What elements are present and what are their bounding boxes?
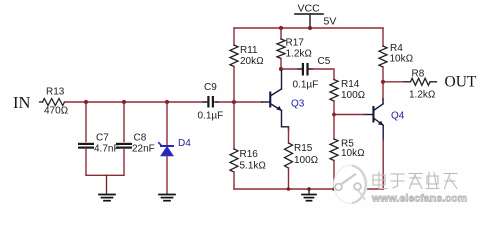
wire ground stub C7C8 xyxy=(106,175,108,194)
wire R4 to node xyxy=(382,67,384,100)
svg-text:D4: D4 xyxy=(178,138,191,149)
svg-text:R15: R15 xyxy=(294,143,313,154)
resistor R5 xyxy=(330,139,338,161)
node junction R17 top xyxy=(279,26,283,30)
svg-text:R16: R16 xyxy=(240,149,259,160)
capacitor C9 xyxy=(203,101,218,103)
wire C7 branch xyxy=(85,102,87,142)
resistor R16 xyxy=(230,149,238,172)
svg-text:10kΩ: 10kΩ xyxy=(341,148,365,159)
svg-text:C5: C5 xyxy=(318,56,331,67)
node junction R15 bottom xyxy=(287,187,291,191)
wire Q4 base from R14 rail xyxy=(334,114,365,116)
wire R5 rail bottom xyxy=(333,161,335,190)
diode D4 zener xyxy=(159,143,173,156)
wire emitter to R15 xyxy=(288,128,290,143)
svg-text:IN: IN xyxy=(13,93,30,112)
svg-text:22nF: 22nF xyxy=(132,144,155,155)
wire U-bottom C7-C8 xyxy=(86,174,124,176)
svg-text:R17: R17 xyxy=(286,37,305,48)
svg-text:C9: C9 xyxy=(204,82,217,93)
svg-text:4.7nF: 4.7nF xyxy=(94,144,120,155)
node junction R8/collector xyxy=(381,80,385,84)
resistor R15 xyxy=(285,143,293,168)
svg-text:C8: C8 xyxy=(134,133,147,144)
watermark logo ball xyxy=(334,165,367,203)
watermark chinese text 电子发烧友 xyxy=(373,172,457,189)
node junction C5/collector xyxy=(279,67,283,71)
svg-text:R8: R8 xyxy=(412,69,425,80)
node junction Q4 base xyxy=(332,113,336,117)
svg-text:5V: 5V xyxy=(324,16,337,28)
wire C5 to R14 rail xyxy=(312,69,334,80)
wire left rail x=234 top section xyxy=(233,28,235,45)
svg-text:Q4: Q4 xyxy=(391,111,405,122)
wire C8 branch xyxy=(123,102,125,142)
svg-text:R4: R4 xyxy=(390,43,403,54)
node junction R5 bottom xyxy=(332,187,336,191)
svg-text:0.1µF: 0.1µF xyxy=(293,80,319,91)
capacitor C8 xyxy=(116,143,132,145)
wire IN lead to R13 xyxy=(40,101,43,103)
svg-text:R11: R11 xyxy=(240,45,258,56)
svg-text:1.2kΩ: 1.2kΩ xyxy=(409,90,436,101)
node junction ground tap xyxy=(307,187,311,191)
svg-text:www.elecfans.com: www.elecfans.com xyxy=(371,193,467,205)
power VCC symbol xyxy=(295,13,323,15)
resistor R8 xyxy=(383,81,404,83)
svg-text:R14: R14 xyxy=(341,79,360,90)
wire R4 rail top corner xyxy=(382,28,384,46)
node junction at C7 xyxy=(84,100,88,104)
wire R15 bottom xyxy=(288,168,290,189)
svg-text:470Ω: 470Ω xyxy=(44,106,68,117)
resistor R11 xyxy=(230,45,238,67)
ground for D4 xyxy=(159,195,175,201)
wire D4 branch xyxy=(166,102,168,145)
transistor Q3 xyxy=(262,89,289,130)
wire top rail y=28 xyxy=(234,27,383,29)
wire R17 rail top xyxy=(280,28,282,39)
ground main xyxy=(302,195,316,201)
wire bottom rail y=189 xyxy=(234,188,383,190)
wire C7 bottom xyxy=(85,149,87,176)
svg-text:Q3: Q3 xyxy=(291,99,305,110)
node junction input/R11 rail xyxy=(232,100,236,104)
wire collector lead Q3 xyxy=(281,70,283,89)
wire left rail mid xyxy=(233,67,235,150)
node junction at D4 xyxy=(165,100,169,104)
capacitor C7 xyxy=(78,143,94,145)
svg-text:10kΩ: 10kΩ xyxy=(390,54,414,65)
svg-text:1.2kΩ: 1.2kΩ xyxy=(286,49,313,60)
wire D4 bottom xyxy=(166,156,168,195)
svg-text:100Ω: 100Ω xyxy=(294,155,318,166)
svg-text:OUT: OUT xyxy=(445,74,477,91)
wire main input rail y=102 xyxy=(65,101,207,103)
wire Q4 emitter down xyxy=(382,140,384,189)
capacitor C5 xyxy=(281,68,312,70)
svg-text:VCC: VCC xyxy=(298,3,321,15)
wire C8 bottom xyxy=(123,149,125,176)
resistor R17 xyxy=(277,39,285,59)
node junction VCC xyxy=(308,26,312,30)
resistor R13 xyxy=(43,99,65,106)
resistor R14 xyxy=(330,80,338,102)
resistor R4 xyxy=(379,46,387,67)
svg-text:R13: R13 xyxy=(46,87,65,98)
ground for C7 C8 xyxy=(99,195,115,201)
svg-text:100Ω: 100Ω xyxy=(341,90,365,101)
wire ground stub main xyxy=(308,189,310,194)
transistor Q4 xyxy=(364,99,383,141)
svg-text:C7: C7 xyxy=(96,133,109,144)
node junction at C8 xyxy=(122,100,126,104)
svg-text:5.1kΩ: 5.1kΩ xyxy=(240,161,267,172)
svg-text:20kΩ: 20kΩ xyxy=(240,56,264,67)
wire R14 rail mid xyxy=(333,101,335,139)
wire R17 to C5 node xyxy=(280,59,282,71)
svg-text:0.1µF: 0.1µF xyxy=(198,111,224,122)
wire left rail bottom xyxy=(233,172,235,189)
